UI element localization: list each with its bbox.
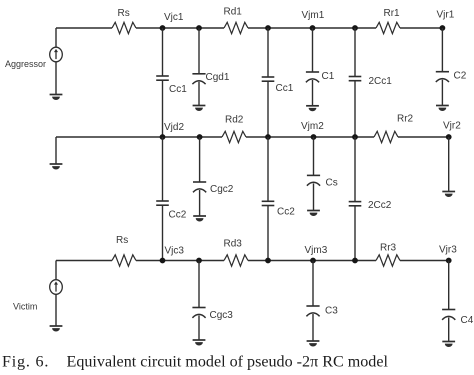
- svg-text:C1: C1: [322, 71, 335, 82]
- node Vjm1: [310, 25, 316, 31]
- current source I2 lead bottom: [55, 294, 57, 326]
- label Cc2 (mid): [277, 207, 295, 218]
- wire Cgd1 to ground: [198, 82, 200, 106]
- label Vjm2: [301, 121, 324, 132]
- wire 2Cc2 down to row 3: [354, 206, 356, 261]
- svg-text:Equivalent circuit model of ps: Equivalent circuit model of pseudo -2π R…: [67, 354, 389, 371]
- svg-text:Cc2: Cc2: [169, 210, 187, 221]
- wire row2 left segment: [56, 136, 222, 138]
- label C1: [322, 71, 335, 82]
- wire C3 to ground: [312, 314, 314, 341]
- capacitor Cc2 (mid, rows 2-3): [262, 201, 275, 205]
- label Victim: [13, 302, 37, 312]
- node Vjm2: [311, 134, 317, 140]
- label Cgd1: [206, 72, 230, 83]
- svg-text:Cgc3: Cgc3: [210, 310, 234, 321]
- wire down to Cgc2: [199, 137, 201, 182]
- wire row1 Rs to Rd1: [136, 27, 224, 29]
- node Vjm3: [310, 258, 316, 264]
- svg-text:Vjr3: Vjr3: [439, 245, 457, 256]
- label Rr1: [384, 8, 401, 19]
- label C3: [325, 306, 338, 317]
- wire Vjr3 down to C4: [448, 261, 450, 310]
- node Vjc1: [160, 25, 166, 31]
- current source I1 lead bottom: [55, 62, 57, 95]
- wire Vjm2 down to Cs: [313, 137, 315, 175]
- wire C4 to ground: [448, 318, 450, 342]
- wire C1 to ground: [312, 80, 314, 106]
- capacitor C2: [436, 72, 449, 82]
- label Vjc3: [165, 246, 185, 257]
- label Vjr3: [439, 245, 457, 256]
- ground at row2 left end: [50, 164, 63, 170]
- svg-text:Rd1: Rd1: [224, 7, 243, 18]
- label Vjc1: [164, 12, 184, 23]
- node at 2Cc1 branch (row 1): [352, 25, 358, 31]
- ground under C1: [306, 106, 319, 111]
- ground under I1: [50, 95, 63, 101]
- wire row1 Rr1 to Vjr1: [400, 27, 442, 29]
- capacitor 2Cc2: [349, 202, 362, 206]
- svg-text:Cc2: Cc2: [277, 207, 295, 218]
- wire Cs to ground: [313, 183, 315, 210]
- wire Cgc3 to ground: [198, 316, 200, 341]
- label Cc1 (left, rows 1-2): [169, 84, 187, 95]
- node at Cc2 mid branch (row 2): [265, 134, 271, 140]
- current source I1 (Aggressor): [50, 47, 63, 62]
- caption Fig. 6: [2, 354, 388, 371]
- wire Cgc2 to ground: [199, 190, 201, 216]
- label Cc2 (left): [169, 210, 187, 221]
- capacitor 2Cc1: [349, 77, 362, 81]
- wire Cc2 (mid) down to row 3: [267, 206, 269, 261]
- svg-text:Rr1: Rr1: [384, 8, 401, 19]
- label Vjm3: [305, 245, 328, 256]
- node at Cc1 mid branch (row 1): [265, 25, 271, 31]
- capacitor Cc1 (left, rows 1-2): [156, 76, 169, 80]
- svg-text:C2: C2: [454, 71, 467, 82]
- capacitor Cc2 (left, rows 2-3): [156, 201, 169, 205]
- svg-text:Rs: Rs: [116, 235, 128, 246]
- capacitor Cs: [307, 175, 320, 185]
- wire down to 2Cc2: [354, 137, 356, 202]
- ground under C3: [307, 341, 320, 346]
- label Rr2: [397, 114, 414, 125]
- svg-text:Aggressor: Aggressor: [5, 59, 46, 69]
- ground under Cgc2: [193, 216, 206, 222]
- svg-text:Vjm2: Vjm2: [301, 121, 324, 132]
- wire Vjm3 down to C3: [312, 261, 314, 307]
- resistor Rr2: [374, 131, 398, 142]
- svg-text:Cs: Cs: [326, 178, 338, 189]
- wire Vjd2 down to Cc2: [162, 137, 164, 201]
- label Rd3: [224, 239, 243, 250]
- ground under I2: [50, 326, 63, 332]
- node Vjr3: [446, 258, 452, 264]
- wire down to Cc2 (mid): [267, 137, 269, 201]
- node at 2Cc2 bottom (row 3): [352, 258, 358, 264]
- svg-text:Vjd2: Vjd2: [164, 122, 184, 133]
- wire down to Cgc3: [198, 261, 200, 308]
- capacitor C4: [442, 310, 455, 320]
- node Vjd2: [160, 134, 166, 140]
- label C4: [461, 315, 474, 326]
- label Vjr2: [443, 121, 461, 132]
- svg-text:2Cc2: 2Cc2: [368, 200, 392, 211]
- node at Cgd1 branch (row 1): [196, 25, 202, 31]
- resistor Rs (row 3): [112, 255, 136, 266]
- svg-text:Vjr1: Vjr1: [437, 10, 455, 21]
- capacitor Cgc2: [193, 182, 206, 192]
- resistor Rd2: [222, 131, 246, 142]
- label Rd2: [225, 115, 244, 126]
- svg-text:Cc1: Cc1: [169, 84, 187, 95]
- wire down to Cc1 (mid): [267, 28, 269, 77]
- node Vjr2: [446, 134, 452, 140]
- node at Cgc2 branch (row 2): [197, 134, 203, 140]
- wire row1 left segment: [56, 27, 112, 29]
- label 2Cc2: [368, 200, 392, 211]
- node Vjc3: [160, 258, 166, 264]
- svg-text:Cgc2: Cgc2: [210, 184, 234, 195]
- node at 2Cc2 branch (row 2): [352, 134, 358, 140]
- label Cs: [326, 178, 338, 189]
- capacitor Cgd1: [192, 74, 205, 84]
- ground under C4: [442, 342, 455, 348]
- label Rr3: [380, 243, 397, 254]
- label Aggressor: [5, 59, 46, 69]
- ground under Cgc3: [193, 340, 206, 345]
- svg-text:C3: C3: [325, 306, 338, 317]
- wire 2Cc1 down to row 2: [354, 81, 356, 137]
- current source I1 (Aggressor) lead top: [55, 28, 57, 47]
- svg-text:2Cc1: 2Cc1: [369, 76, 393, 87]
- wire row2 left drop to ground: [55, 137, 57, 164]
- label Vjr1: [437, 10, 455, 21]
- node at Cgc3 branch (row 3): [196, 258, 202, 264]
- capacitor Cc1 (mid, rows 1-2): [262, 77, 275, 81]
- ground under Cs: [307, 211, 320, 216]
- node Vjr1: [440, 25, 446, 31]
- wire row2 Rr2 to Vjr2: [398, 136, 449, 138]
- ground under C2: [436, 106, 449, 111]
- wire Cc2 down to Vjc3: [162, 205, 164, 260]
- svg-text:Cgd1: Cgd1: [206, 72, 230, 83]
- svg-text:Rd2: Rd2: [225, 115, 244, 126]
- svg-text:Fig. 6.: Fig. 6.: [2, 354, 49, 371]
- label Vjd2: [164, 122, 184, 133]
- wire C2 to ground: [441, 80, 443, 106]
- label Cc1 (mid): [276, 83, 294, 94]
- svg-text:Cc1: Cc1: [276, 83, 294, 94]
- label Cgc2: [210, 184, 234, 195]
- wire row1 Rd1 to Rr1: [248, 27, 376, 29]
- resistor Rd3: [224, 255, 248, 266]
- wire Vjr2 down to ground: [448, 137, 450, 192]
- wire row2 Rd2 to Rr2: [246, 136, 374, 138]
- svg-text:Vjc1: Vjc1: [164, 12, 184, 23]
- wire Cc1 (mid) down to row 2: [267, 81, 269, 137]
- label Rs (row 3): [116, 235, 128, 246]
- wire row3 Rs to Rd3: [136, 260, 224, 262]
- resistor Rs (row 1): [112, 22, 136, 33]
- resistor Rd1: [224, 22, 248, 33]
- label 2Cc1: [369, 76, 393, 87]
- svg-text:Vjc3: Vjc3: [165, 246, 185, 257]
- resistor Rr1: [376, 22, 400, 33]
- wire Vjr1 down to C2: [441, 28, 443, 72]
- svg-text:Rs: Rs: [118, 8, 130, 19]
- capacitor C1: [306, 72, 319, 82]
- wire down to Cgd1: [198, 28, 200, 74]
- wire Vjm1 down to C1: [312, 28, 314, 72]
- label Rs (row 1): [118, 8, 130, 19]
- label Cgc3: [210, 310, 234, 321]
- svg-text:Vjr2: Vjr2: [443, 121, 461, 132]
- label C2: [454, 71, 467, 82]
- capacitor C3: [306, 306, 319, 316]
- ground under Cgd1: [193, 106, 206, 111]
- svg-text:C4: C4: [461, 315, 474, 326]
- svg-text:Rr3: Rr3: [380, 243, 397, 254]
- ground under Vjr2: [442, 192, 455, 198]
- capacitor Cgc3: [192, 308, 205, 318]
- resistor Rr3: [376, 255, 400, 266]
- label Vjm1: [302, 10, 325, 21]
- wire row3 Rd3 to Rr3: [248, 260, 376, 262]
- svg-text:Vjm3: Vjm3: [305, 245, 328, 256]
- svg-text:Vjm1: Vjm1: [302, 10, 325, 21]
- svg-text:Victim: Victim: [13, 302, 37, 312]
- current source I2 (Victim) lead top: [55, 261, 57, 280]
- current source I2 (Victim): [50, 280, 63, 295]
- wire Cc1 down to Vjd2: [162, 80, 164, 137]
- wire row3 left segment: [56, 260, 112, 262]
- node at row3 mid branch: [265, 258, 271, 264]
- wire row3 Rr3 to Vjr3: [400, 260, 449, 262]
- svg-text:Rr2: Rr2: [397, 114, 414, 125]
- wire down to 2Cc1: [354, 28, 356, 77]
- svg-text:Rd3: Rd3: [224, 239, 243, 250]
- wire Vjc1 down to Cc1: [162, 28, 164, 76]
- label Rd1: [224, 7, 243, 18]
